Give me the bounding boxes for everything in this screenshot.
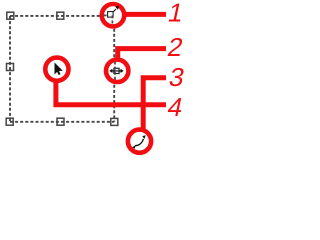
circle marker 3 (pointer): [45, 58, 68, 81]
icon circle 4: rotate arrow curve: [135, 139, 144, 146]
icon circle 1: NE resize arrow shaft: [113, 9, 116, 12]
handle left-middle: [7, 64, 14, 71]
selection rectangle bottom edge (dashed): [10, 121, 114, 123]
icon circle 3: mouse pointer: [55, 63, 63, 76]
handle bottom-middle: [57, 118, 64, 125]
icon circle 4: rotate SW arrowhead: [132, 145, 135, 149]
handle top-left: [7, 12, 14, 19]
icon circle 1: corner handle square: [108, 12, 114, 18]
circle marker 2 (side handle): [106, 60, 128, 82]
callout line 1: [118, 12, 166, 17]
selection rectangle right edge (dashed): [113, 19, 115, 122]
callout line 3: [143, 78, 166, 129]
dashed segment inside circle 1 (top edge): [104, 14, 109, 16]
handle bottom-right: [111, 118, 118, 125]
callout line 2: [118, 49, 166, 60]
circle marker 4 (rotate): [128, 130, 151, 153]
circle marker 1 (corner handle): [102, 4, 124, 26]
icon circle 2: right arrowhead: [121, 69, 124, 73]
icon circle 4: rotate NE arrowhead: [142, 135, 145, 139]
dashed segment inside circle 1 (right edge): [111, 15, 113, 25]
dashed segment inside circle 2 (right edge): [114, 62, 116, 81]
icon circle 2: left arrowhead: [109, 69, 112, 73]
handle bottom-left: [6, 118, 13, 125]
callout line 4: [56, 80, 166, 105]
icon circle 2: side handle square: [114, 68, 119, 73]
handle top-middle: [57, 12, 64, 19]
selection rectangle left edge (dashed): [9, 16, 11, 122]
icon circle 2: horizontal resize bar: [111, 70, 122, 72]
icon circle 1: NE resize arrowhead: [115, 6, 119, 10]
selection rectangle top edge (dashed): [10, 15, 107, 17]
